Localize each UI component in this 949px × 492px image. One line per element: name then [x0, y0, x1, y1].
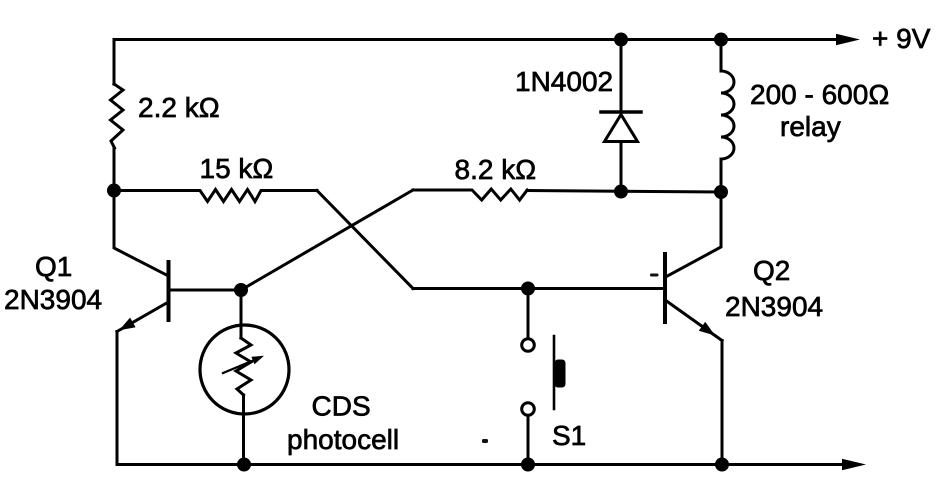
Q1 emitter arrowhead: [119, 318, 136, 331]
Q1 emitter diagonal: [117, 303, 168, 332]
scan speck left of Q2 bar: [650, 274, 659, 277]
wire photocell top lead: [240, 290, 243, 338]
svg-text:8.2 kΩ: 8.2 kΩ: [455, 154, 537, 185]
svg-text:CDS: CDS: [312, 391, 371, 422]
wire bottom ground rail: [117, 463, 846, 466]
wire top +9V supply rail: [114, 38, 840, 41]
S1 top contact circle: [522, 339, 535, 352]
photocell circle: [200, 325, 289, 414]
svg-text:2N3904: 2N3904: [725, 291, 823, 322]
svg-text:Q2: Q2: [753, 255, 790, 286]
svg-text:200 - 600Ω: 200 - 600Ω: [750, 79, 889, 110]
wire S1 top lead: [527, 289, 530, 339]
S1 actuator bar: [553, 336, 556, 409]
wire Q2 emitter vertical: [721, 341, 724, 465]
node: diode anode junction: [614, 185, 628, 199]
S1 bottom contact circle: [522, 403, 535, 416]
wire top rail arrowhead: [836, 34, 860, 45]
wire Q1 emitter vertical: [116, 332, 119, 465]
wire diagonal: Q1 base node to 8.2k: [241, 190, 413, 290]
svg-text:+ 9V: + 9V: [872, 23, 931, 54]
svg-text:relay: relay: [780, 111, 841, 142]
S1 button cap: [555, 360, 566, 388]
scan speck near S1: [482, 439, 488, 443]
switch S1 (pushbutton): [522, 289, 566, 465]
Q2 base bar: [663, 254, 667, 322]
wire left vertical from top rail: [113, 40, 116, 85]
svg-text:2.2 kΩ: 2.2 kΩ: [138, 92, 220, 123]
svg-text:Q1: Q1: [35, 251, 72, 282]
resistor 2.2 kΩ (vertical zigzag): [111, 84, 124, 148]
wire diagonal: 15k to Q2 base row: [317, 191, 413, 289]
photocell arrow line: [223, 358, 259, 373]
inductor: relay coil 200-600Ω: [721, 40, 734, 193]
wire 2.2k bottom to node A: [113, 148, 116, 191]
wire S1 bottom lead: [527, 416, 530, 465]
svg-text:1N4002: 1N4002: [515, 66, 613, 97]
Q2 emitter arrowhead: [699, 322, 715, 336]
photocell CDS: [200, 290, 289, 465]
transistor Q2 2N3904: [665, 192, 722, 341]
node: top rail / diode cathode junction: [614, 33, 628, 47]
wire photocell bottom lead: [242, 395, 245, 465]
node: Q2 emitter / bottom rail junction: [715, 458, 729, 472]
svg-text:2N3904: 2N3904: [4, 284, 102, 315]
Q2 emitter diagonal: [667, 301, 723, 341]
node: Q1 base / photocell junction: [234, 283, 248, 297]
diode D1 1N4002: [601, 40, 641, 192]
wire Q2 collector vertical+diagonal: [667, 192, 722, 277]
wire bottom rail arrowhead: [842, 459, 866, 470]
photocell zigzag element: [236, 338, 251, 395]
node A: 2.2k / 15k / Q1 collector junction: [107, 184, 121, 198]
transistor Q1 2N3904: [114, 191, 241, 332]
node: relay bottom junction: [714, 185, 728, 199]
wire Q2 base horizontal: [413, 287, 664, 290]
wire Q1 collector vertical+diagonal: [114, 191, 169, 277]
wire Q1 base lead: [169, 289, 242, 292]
photocell arrowhead: [251, 356, 264, 364]
svg-text:15 kΩ: 15 kΩ: [200, 153, 274, 184]
wire mid rail: 8.2k to diode anode to relay bottom: [527, 191, 721, 193]
node: Q2 base / S1 junction: [521, 282, 535, 296]
node: photocell bottom junction: [237, 458, 251, 472]
svg-text:photocell: photocell: [287, 424, 399, 455]
node: top rail / relay junction: [714, 33, 728, 47]
resistor 15 kΩ (horizontal) with leads: [114, 190, 317, 202]
svg-text:S1: S1: [552, 420, 586, 451]
node: S1 bottom junction: [521, 458, 535, 472]
Q1 base bar: [167, 262, 171, 320]
resistor 8.2 kΩ (horizontal) with leads: [413, 189, 527, 200]
